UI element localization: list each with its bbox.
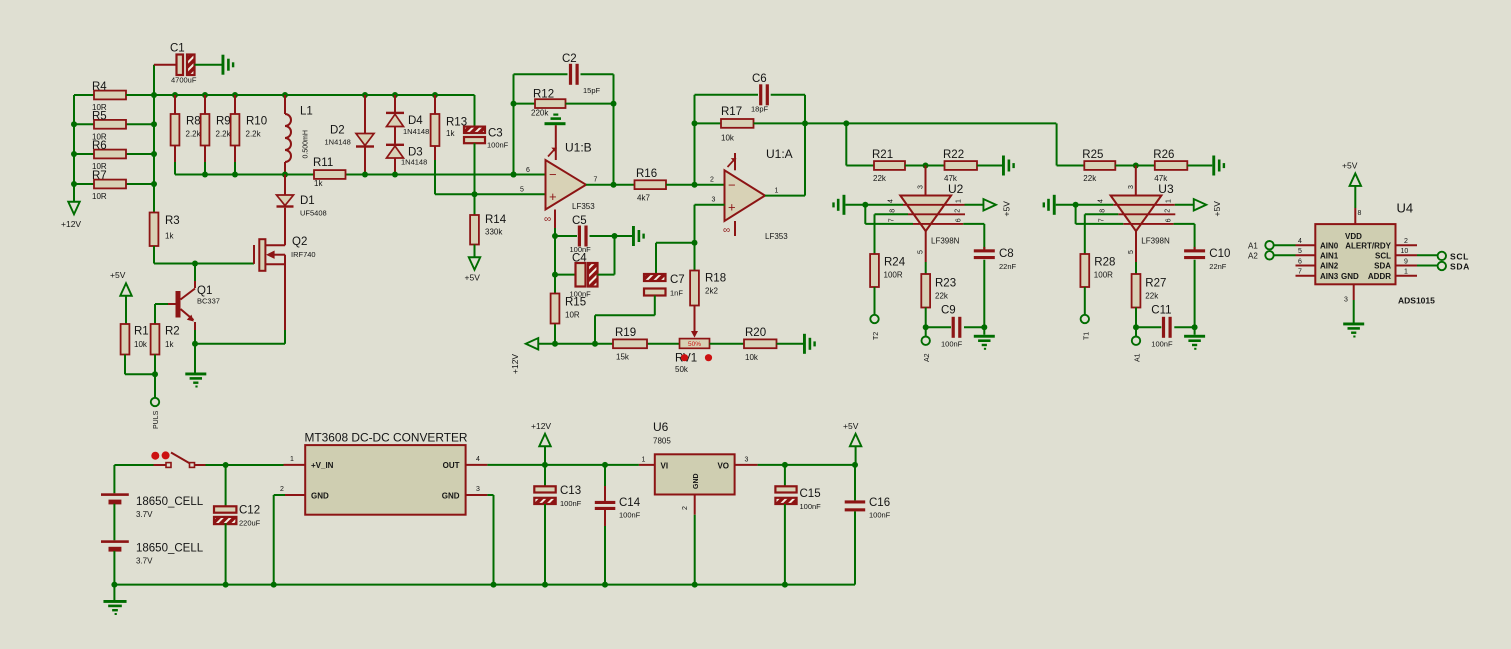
svg-text:1: 1 [1404, 269, 1408, 276]
svg-text:22k: 22k [1145, 292, 1159, 301]
svg-text:5: 5 [1128, 250, 1135, 254]
wire OUT rail [487, 462, 639, 468]
resistor R24 [870, 254, 906, 315]
svg-text:330k: 330k [485, 228, 503, 237]
svg-text:5: 5 [1298, 248, 1302, 255]
svg-text:1: 1 [775, 188, 779, 195]
capacitor C2 [514, 53, 614, 95]
power +5V (U2) [965, 199, 1012, 216]
svg-text:−: − [549, 167, 557, 182]
svg-text:100nF: 100nF [560, 499, 582, 508]
svg-text:R2: R2 [165, 326, 180, 338]
svg-text:+5V: +5V [1002, 201, 1012, 217]
terminal SDA [1417, 262, 1470, 272]
svg-text:22k: 22k [1083, 174, 1097, 183]
resistor R1 [121, 324, 149, 355]
svg-text:22k: 22k [873, 174, 887, 183]
capacitor C7 [595, 274, 685, 344]
svg-text:1: 1 [290, 456, 294, 463]
svg-text:10: 10 [1401, 248, 1409, 255]
svg-text:GND: GND [442, 491, 460, 500]
svg-text:C5: C5 [572, 215, 587, 227]
svg-text:100nF: 100nF [487, 141, 509, 150]
wire ground rail [111, 582, 855, 600]
svg-text:ADDR: ADDR [1368, 272, 1391, 281]
svg-text:C1: C1 [170, 43, 185, 55]
op-amp U1:A [710, 147, 805, 241]
svg-text:−: − [728, 178, 736, 193]
svg-text:GND: GND [311, 491, 329, 500]
pin 3 (U6) [735, 457, 758, 465]
svg-text:4700uF: 4700uF [171, 76, 197, 85]
svg-text:5: 5 [918, 250, 925, 254]
svg-text:Q1: Q1 [197, 285, 212, 297]
capacitor C11 [1136, 305, 1195, 349]
wire fb left (U1:A) [692, 95, 698, 185]
svg-text:3: 3 [1344, 297, 1348, 304]
resistor R27 [1132, 262, 1167, 336]
svg-text:R19: R19 [615, 327, 636, 339]
svg-text:R1: R1 [134, 326, 149, 338]
svg-text:2: 2 [710, 177, 714, 184]
svg-text:2: 2 [1165, 209, 1172, 213]
ground (battery) [103, 600, 126, 615]
svg-text:LF398N: LF398N [1141, 237, 1170, 246]
pin 1 (U6) [639, 457, 655, 465]
wire pin8 (U2) [875, 214, 909, 254]
wire switch to VIN [206, 462, 284, 468]
wire output row [805, 120, 1056, 126]
svg-text:+12V: +12V [531, 421, 551, 431]
svg-text:T1: T1 [1083, 332, 1090, 340]
svg-text:+5V: +5V [1342, 161, 1358, 171]
terminal A1 (U4) [1248, 241, 1296, 251]
svg-text:U3: U3 [1158, 182, 1174, 196]
wire pin6 (U2) [963, 224, 984, 249]
capacitor C4 [555, 236, 615, 299]
ground (R26) [1212, 156, 1225, 176]
svg-text:22k: 22k [935, 292, 949, 301]
svg-text:ADS1015: ADS1015 [1398, 296, 1435, 306]
svg-text:OUT: OUT [443, 461, 460, 470]
svg-text:5: 5 [520, 187, 524, 194]
wire R16 out [666, 182, 725, 188]
svg-text:C16: C16 [869, 497, 890, 509]
power +5V (bottom) [843, 421, 861, 465]
svg-text:100nF: 100nF [869, 511, 891, 520]
pin 1 (U4) [1396, 269, 1418, 276]
power +5V (U3) [1175, 199, 1222, 216]
svg-text:L1: L1 [300, 106, 313, 118]
svg-text:R16: R16 [636, 168, 657, 180]
svg-text:U2: U2 [948, 182, 964, 196]
svg-text:1N4148: 1N4148 [403, 127, 429, 136]
svg-text:ALERT/RDY: ALERT/RDY [1345, 241, 1391, 250]
wire feedback left [511, 74, 517, 177]
svg-text:R7: R7 [92, 170, 107, 182]
svg-text:LF353: LF353 [765, 232, 788, 241]
svg-text:R18: R18 [705, 273, 726, 285]
pin 7 (U4) [1296, 269, 1316, 276]
wire feed (U2) [845, 123, 847, 165]
svg-text:1: 1 [955, 199, 962, 203]
svg-text:R4: R4 [92, 81, 107, 93]
svg-text:100R: 100R [1094, 271, 1113, 280]
pin 10 (U4) [1396, 248, 1418, 255]
svg-text:8: 8 [889, 209, 896, 213]
ic U6 7805 [653, 420, 735, 495]
svg-text:R14: R14 [485, 214, 507, 226]
capacitor C3 [464, 95, 509, 194]
svg-text:R10: R10 [246, 116, 267, 128]
svg-text:18pF: 18pF [751, 105, 769, 114]
svg-text:7: 7 [888, 218, 895, 222]
wire pin3 path [656, 205, 725, 274]
resistor R26 [1115, 149, 1212, 183]
svg-text:3: 3 [712, 197, 716, 204]
svg-text:C14: C14 [619, 497, 641, 509]
wire pin4/7 (U3) [1073, 202, 1124, 224]
resistor R7 [74, 170, 154, 201]
wire mid bus [175, 172, 546, 178]
svg-text:6: 6 [526, 167, 530, 174]
svg-text:0.500mH: 0.500mH [303, 130, 310, 158]
capacitor C14 [595, 465, 641, 585]
power +12V (rail) [510, 338, 538, 374]
resistor R11 [313, 157, 346, 188]
wire battery top [114, 464, 153, 466]
svg-text:GND: GND [693, 473, 700, 489]
capacitor C15 [775, 465, 821, 585]
svg-text:3.7V: 3.7V [136, 510, 153, 519]
wire fb right (U1:A) [802, 95, 808, 196]
svg-text:220uF: 220uF [239, 519, 261, 528]
svg-text:U4: U4 [1397, 201, 1414, 216]
ground (C5) [632, 226, 645, 246]
capacitor C9 [926, 305, 985, 349]
svg-text:7: 7 [1099, 218, 1106, 222]
svg-text:R27: R27 [1145, 278, 1166, 290]
svg-text:+12V: +12V [510, 354, 520, 374]
svg-text:9: 9 [1404, 258, 1408, 265]
svg-text:∞: ∞ [544, 214, 551, 225]
wire feedback right [611, 74, 617, 187]
svg-text:BC337: BC337 [197, 297, 220, 306]
svg-text:T2: T2 [873, 332, 880, 340]
power +5V (U4) [1342, 161, 1362, 225]
ic U4 ADS1015 [1315, 201, 1435, 306]
ic U3 LF398N [1098, 166, 1176, 263]
svg-text:1k: 1k [446, 129, 455, 138]
svg-text:SDA: SDA [1450, 262, 1470, 272]
svg-text:15pF: 15pF [583, 86, 601, 95]
svg-text:10R: 10R [92, 192, 107, 201]
svg-text:22nF: 22nF [1209, 262, 1227, 271]
ground (R20) [803, 334, 816, 354]
capacitor C13 [534, 465, 581, 585]
svg-text:R28: R28 [1094, 257, 1115, 269]
pin 2 (U6) [682, 495, 695, 585]
svg-text:C13: C13 [560, 485, 581, 497]
ic U2 LF398N [887, 166, 965, 263]
resistor R19 [613, 327, 647, 362]
svg-text:C3: C3 [488, 128, 503, 140]
capacitor C5 [552, 215, 632, 344]
resistor R8 [171, 95, 202, 175]
svg-text:R25: R25 [1082, 149, 1103, 161]
resistor R25 [1057, 149, 1116, 183]
diode D3 [386, 144, 427, 175]
pin 4 (MT3608) [466, 456, 488, 465]
ground (Q1) [185, 373, 206, 388]
svg-text:R6: R6 [92, 140, 107, 152]
svg-text:D1: D1 [300, 195, 315, 207]
terminal PULS [151, 398, 160, 429]
svg-text:VDD: VDD [1345, 232, 1362, 241]
resistor R20 [744, 327, 803, 362]
svg-text:1k: 1k [165, 340, 174, 349]
inductor L1 [285, 95, 313, 175]
resistor R5 [74, 110, 154, 141]
wire bottom rail [538, 341, 679, 347]
wire VO rail [758, 462, 858, 468]
capacitor C1 [154, 43, 222, 85]
svg-text:R24: R24 [884, 257, 906, 269]
svg-text:100nF: 100nF [1151, 340, 1173, 349]
svg-text:4: 4 [1298, 238, 1302, 245]
capacitor C12 [214, 465, 261, 585]
svg-text:R23: R23 [935, 278, 956, 290]
svg-text:C12: C12 [239, 505, 260, 517]
svg-text:50k: 50k [675, 365, 689, 374]
svg-text:C6: C6 [752, 73, 767, 85]
op-amp U1:B [520, 114, 635, 229]
resistor R14 [470, 194, 507, 257]
svg-text:22nF: 22nF [999, 262, 1017, 271]
pin 9 (U4) [1396, 258, 1418, 265]
svg-text:+: + [728, 200, 736, 215]
transistor Q2 [254, 208, 316, 344]
svg-text:SCL: SCL [1375, 252, 1391, 261]
svg-text:R20: R20 [745, 327, 766, 339]
svg-text:+5V: +5V [1212, 201, 1222, 217]
pin 5 (U4) [1296, 248, 1316, 255]
svg-text:3: 3 [1128, 185, 1135, 189]
svg-text:3: 3 [476, 486, 480, 493]
power +5V (R14) [465, 257, 481, 282]
svg-text:R3: R3 [165, 215, 180, 227]
svg-text:R22: R22 [943, 149, 964, 161]
svg-text:+5V: +5V [465, 273, 481, 283]
capacitor C10 [1184, 247, 1230, 335]
svg-text:18650_CELL: 18650_CELL [136, 496, 204, 508]
svg-text:2.2k: 2.2k [246, 130, 262, 139]
battery BT1 18650_CELL [101, 465, 204, 540]
resistor R16 [635, 168, 667, 203]
svg-text:PULS: PULS [153, 410, 160, 429]
svg-text:R11: R11 [313, 157, 333, 169]
pin 4 (U4) [1296, 238, 1316, 245]
svg-text:4: 4 [1098, 199, 1105, 203]
svg-text:R8: R8 [186, 116, 201, 128]
svg-text:LF353: LF353 [572, 202, 595, 211]
power +12V (bottom) [531, 421, 551, 465]
resistor R12 [514, 89, 614, 118]
svg-text:1k: 1k [165, 232, 174, 241]
svg-text:AIN0: AIN0 [1320, 241, 1339, 250]
svg-text:2: 2 [682, 506, 689, 510]
ground (U3 in) [1043, 195, 1114, 215]
svg-text:D2: D2 [330, 125, 345, 137]
wire R1 R2 join [125, 355, 158, 398]
svg-text:+5V: +5V [843, 421, 859, 431]
svg-text:2.2k: 2.2k [186, 130, 202, 139]
svg-text:50%: 50% [688, 341, 701, 348]
wire vertical bus [151, 65, 157, 213]
svg-text:7: 7 [1298, 269, 1302, 276]
svg-text:C2: C2 [562, 53, 577, 65]
svg-text:10k: 10k [721, 134, 735, 143]
capacitor C6 [695, 73, 806, 114]
resistor R23 [921, 262, 956, 336]
svg-text:15k: 15k [616, 353, 630, 362]
svg-text:6: 6 [1166, 218, 1173, 222]
wire emitter rail [192, 341, 285, 373]
pin 3 (MT3608) [466, 486, 494, 585]
ground (R22) [1002, 156, 1015, 176]
svg-text:4: 4 [476, 456, 480, 463]
svg-text:220k: 220k [531, 109, 549, 118]
pin 2 (MT3608) [274, 486, 306, 585]
transistor Q1 [155, 264, 220, 344]
svg-text:SCL: SCL [1450, 251, 1469, 261]
svg-text:2: 2 [954, 209, 961, 213]
svg-text:7: 7 [594, 177, 598, 184]
svg-text:4: 4 [887, 199, 894, 203]
svg-text:UF5408: UF5408 [300, 209, 327, 218]
svg-text:C10: C10 [1209, 248, 1230, 260]
resistor R10 [231, 95, 268, 175]
svg-text:+V_IN: +V_IN [311, 461, 334, 470]
svg-text:LF398N: LF398N [931, 237, 960, 246]
svg-text:18650_CELL: 18650_CELL [136, 543, 204, 555]
wire pin6 (U3) [1174, 224, 1195, 249]
svg-text:U1:B: U1:B [565, 141, 592, 155]
svg-text:1N4148: 1N4148 [325, 138, 351, 147]
svg-text:2: 2 [1404, 238, 1408, 245]
wire feed (U3) [1056, 123, 1058, 165]
power +5V (R1) [110, 270, 132, 324]
ground (U3 hold) [1184, 335, 1205, 350]
svg-text:+5V: +5V [110, 270, 126, 280]
svg-text:GND: GND [1341, 272, 1359, 281]
pin 6 (U4) [1296, 258, 1316, 265]
resistor R13 [431, 95, 468, 194]
ground (U2 in) [832, 195, 903, 215]
svg-text:U6: U6 [653, 420, 669, 434]
capacitor C16 [845, 465, 891, 585]
wire left bus [71, 95, 77, 202]
resistor R2 [151, 324, 180, 355]
svg-text:C11: C11 [1151, 305, 1171, 317]
diode D2 [325, 95, 375, 175]
svg-text:A2: A2 [1248, 252, 1258, 261]
resistor R4 [74, 81, 154, 112]
terminal T1 [1081, 315, 1091, 340]
terminal A2 [922, 337, 932, 363]
svg-text:1: 1 [642, 457, 646, 464]
resistor R18 [690, 243, 726, 338]
resistor R28 [1080, 254, 1115, 315]
svg-text:C8: C8 [999, 248, 1014, 260]
svg-text:C4: C4 [572, 253, 587, 265]
wire top bus [126, 92, 475, 98]
svg-text:+12V: +12V [61, 219, 81, 229]
svg-text:1nF: 1nF [670, 289, 683, 298]
svg-text:MT3608 DC-DC CONVERTER: MT3608 DC-DC CONVERTER [305, 431, 468, 445]
ic MT3608 DC-DC CONVERTER [305, 431, 468, 515]
svg-text:3: 3 [745, 457, 749, 464]
wire plus-input row [435, 191, 546, 197]
svg-text:AIN3: AIN3 [1320, 272, 1339, 281]
svg-text:C15: C15 [800, 488, 821, 500]
svg-text:A1: A1 [1134, 353, 1141, 362]
svg-text:R17: R17 [721, 106, 742, 118]
svg-text:SDA: SDA [1374, 262, 1391, 271]
svg-text:+: + [549, 189, 557, 204]
svg-text:R9: R9 [216, 116, 231, 128]
svg-text:100nF: 100nF [800, 502, 822, 511]
switch SW1 [151, 451, 205, 467]
svg-text:100R: 100R [884, 271, 903, 280]
svg-text:3: 3 [918, 185, 925, 189]
pin 1 (MT3608) [284, 456, 306, 465]
svg-text:VI: VI [661, 462, 669, 471]
wire gate node [154, 261, 254, 267]
svg-text:∞: ∞ [723, 225, 730, 236]
svg-text:3.7V: 3.7V [136, 557, 153, 566]
svg-text:IRF740: IRF740 [291, 250, 316, 259]
svg-text:6: 6 [1298, 258, 1302, 265]
resistor R21 [846, 149, 905, 183]
svg-text:2: 2 [280, 486, 284, 493]
svg-text:8: 8 [1100, 209, 1107, 213]
svg-text:R5: R5 [92, 110, 107, 122]
svg-text:A1: A1 [1248, 242, 1258, 251]
svg-text:R12: R12 [533, 89, 554, 101]
resistor R15 [551, 294, 587, 324]
battery BT2 18650_CELL [101, 540, 204, 584]
svg-text:VO: VO [717, 462, 729, 471]
wire pin8 (U3) [1085, 214, 1119, 254]
svg-text:A2: A2 [924, 353, 931, 362]
power +12V [61, 202, 81, 229]
svg-text:1: 1 [1166, 199, 1173, 203]
terminal SCL [1417, 251, 1469, 261]
svg-text:2k2: 2k2 [705, 287, 718, 296]
resistor R6 [74, 140, 154, 171]
svg-text:R15: R15 [565, 297, 586, 309]
svg-text:10k: 10k [134, 340, 148, 349]
svg-text:8: 8 [1358, 210, 1362, 217]
resistor R3 [150, 213, 180, 264]
pin 3 / ground (U4) [1343, 284, 1364, 337]
pin 2 (U4) [1396, 238, 1418, 245]
svg-text:C9: C9 [941, 305, 956, 317]
svg-text:2.2k: 2.2k [216, 130, 232, 139]
svg-text:10R: 10R [565, 311, 580, 320]
svg-text:R26: R26 [1153, 149, 1174, 161]
